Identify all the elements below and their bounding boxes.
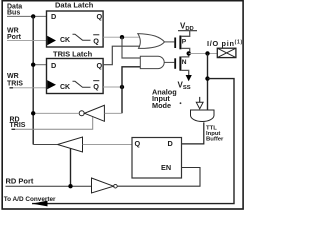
wire data Qbar down to AND top	[122, 37, 140, 58]
wire TRIS Qbar vertical to AND and RD TRIS buffer	[122, 67, 140, 114]
wire RD TRIS enable	[12, 128, 16, 130]
wire RD TRIS buffer output to bus	[33, 112, 79, 114]
svg-text:Q: Q	[135, 139, 141, 148]
svg-text:RD Port: RD Port	[6, 176, 34, 185]
arrow to A/D converter	[32, 201, 48, 207]
svg-text:N: N	[182, 59, 187, 66]
TTL input buffer label	[206, 125, 224, 142]
node Data Bus label	[7, 3, 22, 16]
svg-text:D: D	[51, 12, 56, 21]
wire node to IO pin	[189, 52, 217, 54]
wire read buffer output to bus	[33, 144, 57, 146]
transistor Q1 source lead	[181, 31, 189, 37]
svg-text:Q: Q	[93, 36, 99, 45]
power Vdd rail	[178, 30, 197, 32]
AND gate G2	[140, 56, 164, 68]
svg-text:Mode: Mode	[152, 101, 171, 110]
tris latch U2 edge squiggle	[73, 81, 91, 87]
wire WR Port to CK	[7, 40, 47, 42]
wire pin tap down to TTL buffer	[207, 53, 209, 110]
inverter analog mode triangle	[196, 102, 203, 109]
svg-text:EN: EN	[161, 163, 171, 172]
tri-state buffer G4 RD TRIS	[85, 105, 105, 121]
svg-text:P: P	[182, 39, 187, 46]
wire EN path from RD Port buffer	[117, 168, 200, 187]
junction RD Port dot	[68, 184, 72, 188]
wire analog mode stub	[199, 97, 201, 102]
svg-text:WR: WR	[7, 73, 19, 80]
wire TRIS D input	[33, 64, 46, 66]
node WR TRIS label	[7, 73, 23, 87]
wire TTL buffer output	[182, 122, 204, 143]
wire TRIS Q to OR input	[103, 46, 140, 64]
svg-text:Port: Port	[7, 34, 22, 41]
svg-text:Q: Q	[97, 61, 103, 70]
transistor Q2 source lead	[181, 70, 188, 76]
power Vss arrow	[186, 75, 192, 81]
wire AND output	[164, 61, 174, 63]
svg-text:Bus: Bus	[7, 10, 20, 17]
wire pin tap to AD riser	[32, 79, 234, 204]
svg-text:D: D	[51, 61, 56, 70]
wire data bus vertical	[32, 16, 34, 144]
tris latch U2 pin Qbar	[93, 81, 99, 92]
data latch U1 box	[47, 11, 104, 47]
svg-text:CK: CK	[60, 37, 70, 44]
junction dot data Qbar	[120, 35, 124, 39]
junction pin tap dot	[205, 51, 209, 55]
svg-text:Buffer: Buffer	[206, 137, 224, 143]
wire TRIS Qbar out	[103, 86, 122, 88]
node RD TRIS label	[10, 116, 26, 129]
svg-text:Q: Q	[97, 12, 103, 21]
junction TRIS D dot	[31, 62, 35, 66]
wire data bus horizontal	[7, 15, 47, 17]
node WR Port label	[7, 28, 22, 41]
wire read buffer enable	[70, 148, 72, 186]
transistor Q1 channel bar	[179, 36, 181, 50]
buffer G6 RD Port	[92, 178, 114, 193]
tris latch U2 box	[47, 59, 104, 94]
bubble RD TRIS	[79, 111, 84, 116]
svg-text:Data Latch: Data Latch	[55, 1, 94, 10]
transistor Q2 N-channel gate bar	[174, 58, 176, 69]
transistor Q1 drain lead	[181, 48, 189, 53]
svg-text:CK: CK	[60, 84, 70, 91]
wire data latch Qbar out	[103, 36, 139, 38]
transistor Q2 drain lead	[181, 53, 188, 57]
OR gate G1	[138, 34, 165, 49]
svg-text:D: D	[168, 139, 173, 148]
io pin X	[217, 48, 236, 57]
svg-text:TRIS: TRIS	[10, 122, 26, 129]
junction pin-to-buffer tap dot	[205, 76, 209, 80]
wire RD TRIS buffer input	[104, 112, 122, 114]
junction RD TRIS output dot	[31, 111, 35, 115]
stray dot after Input	[180, 102, 182, 104]
node Analog Input Mode label	[152, 88, 181, 110]
transistor Q1 P-channel gate bar	[174, 38, 176, 49]
bubble RD Port buffer	[114, 184, 118, 188]
tri-state buffer G5 read port	[58, 137, 83, 152]
data latch U1 edge squiggle	[73, 34, 91, 40]
wire WR TRIS to CK	[10, 87, 14, 89]
junction drain node dot	[187, 51, 191, 55]
wire OR output	[165, 41, 175, 43]
svg-text:TRIS Latch: TRIS Latch	[53, 49, 93, 58]
transistor Q2 channel bar	[179, 57, 181, 71]
TTL input buffer G3	[191, 110, 215, 122]
data latch U1 pin Qbar	[93, 35, 99, 46]
wire RD Port line	[6, 185, 92, 187]
wire read buffer input from latch Q	[83, 143, 133, 145]
tris latch U2 CK triangle	[47, 80, 56, 89]
input latch U3 box	[132, 138, 182, 179]
svg-text:Q: Q	[93, 82, 99, 91]
svg-text:TRIS: TRIS	[7, 80, 23, 87]
border frame	[2, 1, 243, 209]
data latch U1 CK triangle	[47, 36, 56, 46]
junction dot TRIS Qbar	[120, 85, 124, 89]
svg-text:To A/D Converter: To A/D Converter	[4, 196, 56, 203]
io pin box	[217, 48, 236, 57]
junction data bus dot	[31, 14, 35, 18]
